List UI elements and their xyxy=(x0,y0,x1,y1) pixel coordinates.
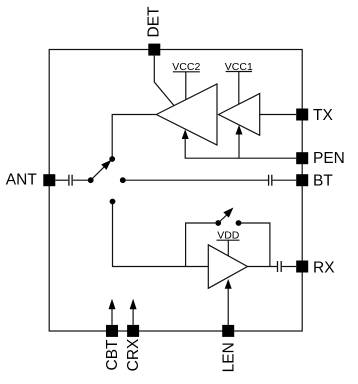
pin PEN square xyxy=(296,152,308,164)
pin DET square xyxy=(148,44,160,56)
capacitor C-RX plate 2 xyxy=(280,261,282,272)
svg-text:RX: RX xyxy=(313,259,335,276)
switch SW2 lever wire (bypass) xyxy=(218,214,227,223)
wire CBT pin stub xyxy=(111,309,113,325)
op-amp A1 TX power amplifier xyxy=(156,84,217,145)
wire DET pin to big amp top edge xyxy=(154,56,174,106)
arrowhead CRX up xyxy=(130,299,137,310)
pin BT square xyxy=(296,174,308,186)
wire node B up to TX amplifier output xyxy=(112,115,156,160)
wire cap to node A xyxy=(73,179,91,181)
wire node C to BT capacitor xyxy=(123,179,268,181)
wire BT capacitor to BT pin xyxy=(273,179,297,181)
pin CRX square xyxy=(127,325,139,337)
pin TX square xyxy=(296,109,308,121)
svg-text:DET: DET xyxy=(146,6,163,38)
svg-text:ANT: ANT xyxy=(6,171,38,188)
wire RX bypass right contact to output xyxy=(239,223,270,267)
wire RX bypass branch to switch left contact xyxy=(186,223,216,267)
capacitor C-BT plate 2 xyxy=(271,175,273,186)
capacitor C-ANT plate 1 xyxy=(68,175,70,186)
capacitor C-RX plate 1 xyxy=(277,261,279,272)
wire ANT to switch common node xyxy=(55,179,68,181)
op-amp A2 TX driver amplifier xyxy=(219,94,260,136)
svg-text:TX: TX xyxy=(313,107,333,124)
svg-text:CBT: CBT xyxy=(104,339,121,371)
wire small amp output to TX pin xyxy=(260,114,297,116)
node C BT contact dot xyxy=(120,177,126,183)
capacitor C-BT plate 1 xyxy=(268,175,270,186)
node L bypass switch left dot xyxy=(215,220,221,226)
node R bypass switch right dot xyxy=(236,220,242,226)
pin CBT square xyxy=(106,325,118,337)
pin LEN square xyxy=(222,325,234,337)
wire VCC1 to small amp xyxy=(238,72,240,105)
op-amp A3 RX low-noise amplifier xyxy=(208,245,247,288)
arrowhead CBT up xyxy=(109,299,116,310)
wire CRX pin stub xyxy=(132,309,134,325)
svg-text:CRX: CRX xyxy=(125,338,142,371)
switch SW1 lever wire (node A to node B) xyxy=(91,166,106,181)
arrowhead PEN into big amp xyxy=(182,129,189,139)
wire PEN branch to small amp enable xyxy=(238,134,240,159)
svg-text:BT: BT xyxy=(313,173,333,190)
arrowhead LEN into RX amp xyxy=(225,279,232,289)
node B TX contact dot xyxy=(109,156,115,162)
label VCC2 underline xyxy=(173,71,200,73)
arrowhead PEN into small amp xyxy=(236,125,243,135)
svg-text:PEN: PEN xyxy=(313,150,345,167)
node A switch common dot xyxy=(88,177,94,183)
svg-text:LEN: LEN xyxy=(221,342,238,372)
switch SW2 arrowhead xyxy=(223,208,233,218)
wire VDD to RX amp xyxy=(227,240,229,256)
pin ANT square xyxy=(43,174,55,186)
svg-text:VCC2: VCC2 xyxy=(172,61,200,73)
wire LEN pin to RX amp enable xyxy=(227,288,229,325)
node D RX contact dot xyxy=(110,199,116,205)
label VCC1 underline xyxy=(226,71,252,73)
label VDD underline xyxy=(217,239,240,241)
wire RX capacitor to RX pin xyxy=(282,266,297,268)
IC outline box xyxy=(49,50,302,332)
wire node D down to RX amplifier input xyxy=(113,202,209,267)
capacitor C-ANT plate 2 xyxy=(71,175,73,186)
switch SW1 arrowhead xyxy=(101,160,111,170)
pin RX square xyxy=(296,261,308,273)
wire PEN pin to amplifier enables xyxy=(185,138,296,158)
wire VCC2 to big amp xyxy=(185,72,187,100)
wire RX amp output to RX capacitor xyxy=(248,266,278,268)
